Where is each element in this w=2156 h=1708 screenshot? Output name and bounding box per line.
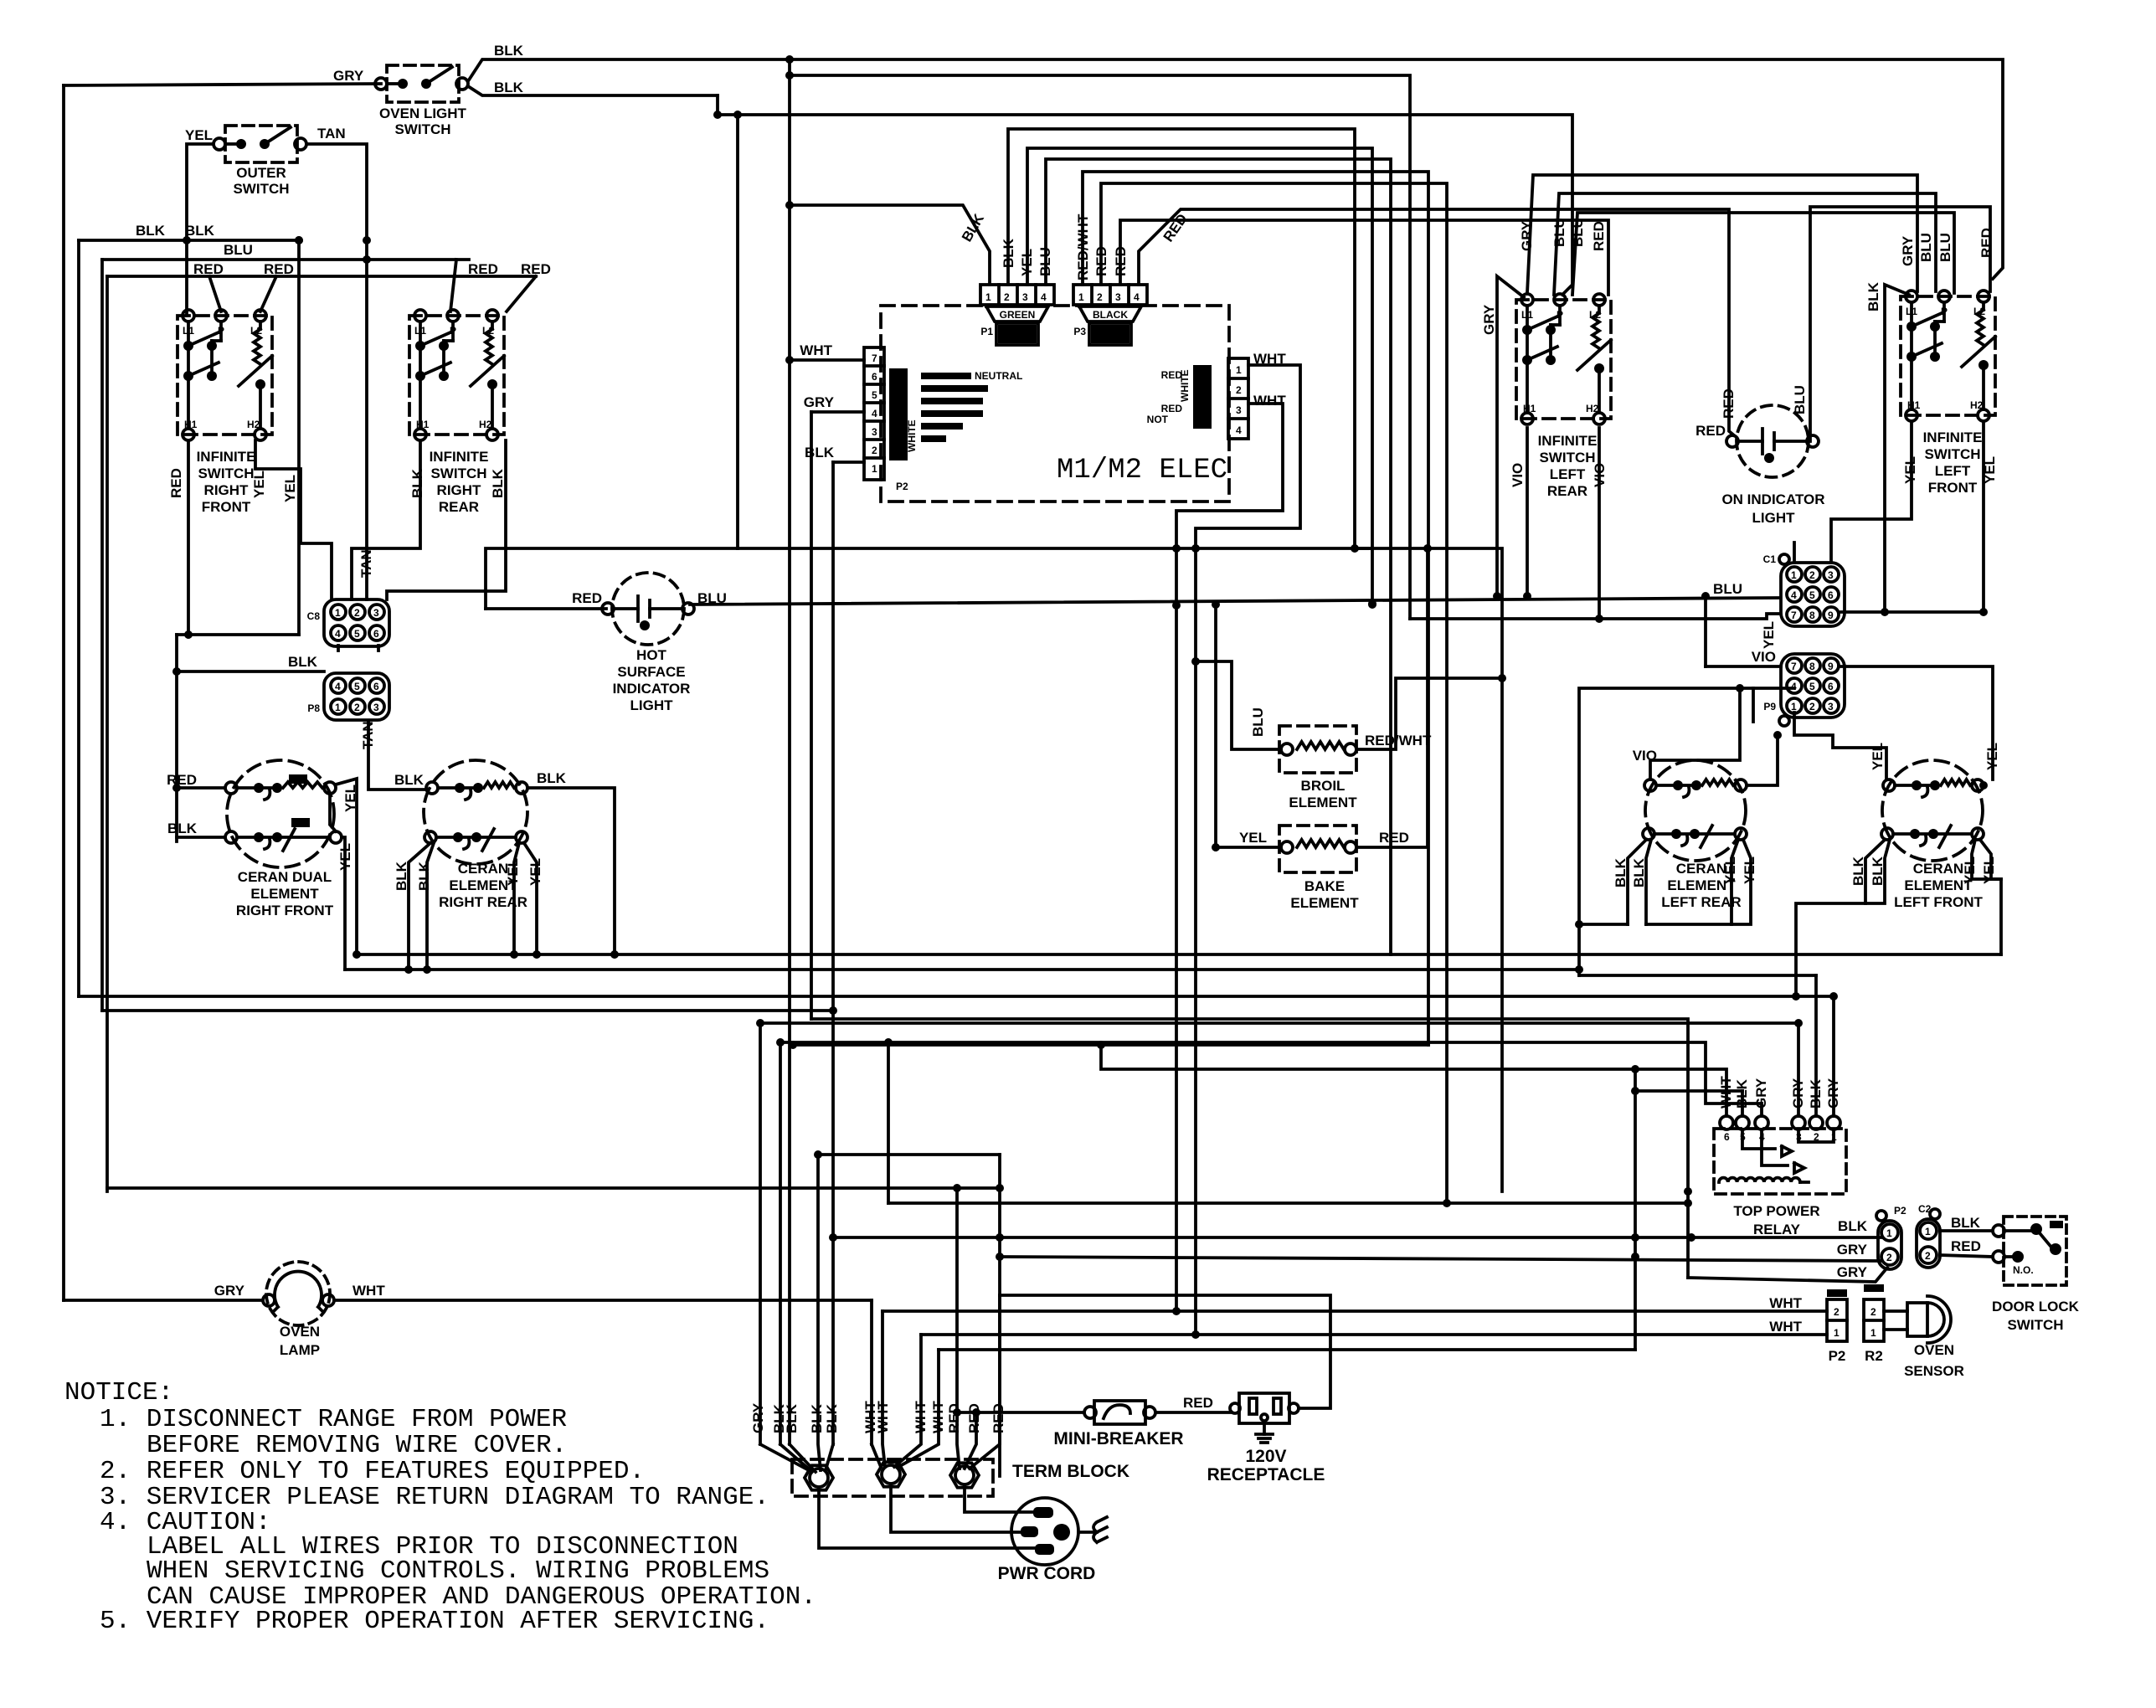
wire lamp line <box>64 1299 263 1302</box>
svg-text:5: 5 <box>1809 681 1815 692</box>
wire bus y655 <box>738 547 1369 550</box>
wire bus H5 y1207 <box>102 1009 833 1012</box>
ceran lr top row <box>1644 779 1656 791</box>
svg-text:ELEMENT: ELEMENT <box>449 877 517 893</box>
connector C8 <box>324 599 389 646</box>
svg-text:WHT: WHT <box>1253 393 1286 409</box>
svg-text:RED: RED <box>1951 1238 1981 1254</box>
ceran lf top row <box>1883 779 1895 791</box>
wire GRY left rear riser <box>1497 276 1524 596</box>
wire riser A3 YEL <box>1027 148 1372 604</box>
wire H1 right front down <box>187 440 190 635</box>
connector P9 nine pin <box>1781 654 1845 718</box>
svg-text:RED: RED <box>1721 388 1737 419</box>
svg-text:RED: RED <box>468 261 498 277</box>
ceran element right rear circle <box>424 760 527 864</box>
wire GRY board pin4 <box>811 410 864 414</box>
svg-text:4: 4 <box>872 408 877 419</box>
svg-text:RED: RED <box>1591 221 1607 251</box>
wire fan blk2 <box>790 1444 816 1472</box>
svg-text:BLK: BLK <box>1870 856 1886 886</box>
svg-text:REAR: REAR <box>1547 483 1587 499</box>
svg-text:1: 1 <box>1236 364 1242 376</box>
infinite switch left front <box>1901 296 1995 415</box>
wire p2 blk <box>833 1236 1881 1239</box>
connector P4 board blob <box>1193 365 1212 429</box>
wire BLK bus left <box>79 239 299 242</box>
wire second top bus <box>718 115 1572 295</box>
svg-text:YEL: YEL <box>1981 857 1997 884</box>
wire C8 to P8 stubs <box>337 646 340 651</box>
svg-text:MINI-BREAKER: MINI-BREAKER <box>1053 1429 1183 1448</box>
svg-text:BLK: BLK <box>1850 856 1866 886</box>
svg-text:RED: RED <box>1161 369 1183 381</box>
svg-text:WHEN SERVICING CONTROLS. WIRIN: WHEN SERVICING CONTROLS. WIRING PROBLEMS <box>147 1556 769 1586</box>
svg-text:7: 7 <box>872 352 877 364</box>
wire hsil left <box>486 607 606 610</box>
svg-text:YEL: YEL <box>1239 830 1267 846</box>
svg-text:YEL: YEL <box>282 475 298 502</box>
svg-text:ELEMENT: ELEMENT <box>1290 895 1359 911</box>
wire relay feeds top <box>1635 1089 1742 1093</box>
svg-text:OUTER: OUTER <box>236 165 286 181</box>
wire nest RED lf <box>1810 207 1990 441</box>
svg-text:WHT: WHT <box>913 1401 929 1433</box>
relay coil <box>1719 1178 1800 1182</box>
svg-text:BLK: BLK <box>394 772 425 788</box>
wire BLK drop lf <box>1885 285 1909 612</box>
svg-text:RIGHT FRONT: RIGHT FRONT <box>236 903 334 918</box>
wire bake right <box>1356 548 1428 847</box>
wire riser A1 BLK <box>790 205 990 285</box>
svg-text:WHT: WHT <box>930 1401 946 1433</box>
connector P8 <box>324 673 389 720</box>
svg-text:BLK: BLK <box>537 770 567 786</box>
svg-text:LIGHT: LIGHT <box>1752 510 1796 526</box>
svg-text:WHITE: WHITE <box>906 419 918 452</box>
wire vert 904 <box>759 1023 762 1444</box>
on indicator light <box>1737 405 1809 477</box>
svg-text:BLK: BLK <box>1734 1078 1750 1109</box>
svg-text:RED: RED <box>966 1403 982 1433</box>
wire ceran dual bottom right <box>342 837 345 970</box>
svg-text:5: 5 <box>354 628 360 640</box>
svg-text:GRY: GRY <box>1481 304 1497 335</box>
wire ceran lf bottom right <box>1972 840 2001 954</box>
wire p2 gry1 <box>1000 1257 1881 1261</box>
svg-text:4: 4 <box>1791 589 1797 601</box>
svg-text:2: 2 <box>872 445 877 456</box>
connector R2 rect <box>1864 1299 1884 1341</box>
svg-text:LEFT FRONT: LEFT FRONT <box>1894 894 1983 910</box>
svg-text:VIO: VIO <box>1752 649 1776 665</box>
svg-text:TAN: TAN <box>317 126 346 141</box>
svg-text:BLK: BLK <box>1001 238 1016 268</box>
svg-text:BLK: BLK <box>1808 1078 1824 1109</box>
svg-text:2: 2 <box>1834 1306 1840 1318</box>
svg-text:RED: RED <box>1161 403 1183 414</box>
svg-text:SWITCH: SWITCH <box>233 181 289 197</box>
wire ceran rr top right <box>527 788 615 954</box>
svg-text:1: 1 <box>985 291 991 303</box>
oven sensor <box>1907 1303 1927 1336</box>
hot surface indicator light <box>612 573 684 645</box>
svg-text:BLK: BLK <box>136 223 166 239</box>
connector P3 plug blob <box>1079 306 1141 322</box>
svg-text:6: 6 <box>1828 589 1834 601</box>
svg-text:C2: C2 <box>1918 1203 1932 1215</box>
svg-text:CERAN: CERAN <box>1676 861 1726 877</box>
svg-text:RED: RED <box>167 772 197 788</box>
wire wht p2 rect2 <box>921 1333 1827 1336</box>
svg-text:WHT: WHT <box>1253 351 1286 367</box>
outer switch <box>225 126 297 162</box>
svg-text:NEUTRAL: NEUTRAL <box>975 370 1022 382</box>
svg-text:P2: P2 <box>1894 1205 1906 1217</box>
wire left front H1 out <box>1831 421 1912 563</box>
wire C1 pin9 out <box>1841 610 1984 614</box>
svg-text:5: 5 <box>354 681 360 692</box>
junction dots left buses <box>183 236 191 244</box>
svg-text:9: 9 <box>1828 661 1834 672</box>
svg-text:RECEPTACLE: RECEPTACLE <box>1207 1465 1325 1484</box>
wire receptacle ground <box>1263 1423 1266 1434</box>
svg-text:BLK: BLK <box>494 43 524 59</box>
svg-text:RED/WHT: RED/WHT <box>1365 733 1432 749</box>
ceran dual bottom row <box>225 831 237 843</box>
svg-text:H1: H1 <box>1523 403 1536 414</box>
svg-text:BLU: BLU <box>1250 707 1266 737</box>
wire WHT board right pin3 <box>1176 404 1283 548</box>
svg-text:TAN: TAN <box>358 549 374 578</box>
svg-text:1: 1 <box>1791 701 1797 713</box>
svg-text:YEL: YEL <box>1722 857 1738 884</box>
receptacle 120V <box>1239 1393 1289 1423</box>
svg-text:3: 3 <box>872 426 877 438</box>
ceran lr frame <box>1579 688 1794 975</box>
wire TAN outer switch <box>306 144 367 599</box>
svg-text:WHT: WHT <box>800 342 832 358</box>
svg-text:RED: RED <box>1379 830 1409 846</box>
svg-text:H2: H2 <box>1586 403 1599 414</box>
svg-text:6: 6 <box>1828 681 1834 692</box>
wire bus H6 y1222 <box>760 1021 1798 1025</box>
wire riser A2 BLK <box>1008 129 1355 548</box>
svg-text:FRONT: FRONT <box>1928 480 1978 496</box>
svg-text:BLK: BLK <box>824 1403 840 1433</box>
wire riser B2 RED <box>1101 183 1447 1203</box>
svg-text:ELEMENT: ELEMENT <box>1289 795 1357 810</box>
svg-text:RED: RED <box>1113 246 1129 276</box>
wire RED drop to L2 right front <box>260 276 276 311</box>
wire breaker to receptacle <box>1155 1411 1231 1414</box>
svg-text:3: 3 <box>1828 701 1834 713</box>
svg-text:C1: C1 <box>1763 553 1777 565</box>
infinite switch right rear <box>409 316 504 435</box>
svg-text:6: 6 <box>872 371 877 383</box>
svg-text:RED: RED <box>1093 246 1109 276</box>
svg-text:BLK: BLK <box>490 468 506 498</box>
svg-text:YEL: YEL <box>185 127 213 143</box>
wire GRY to oven light switch <box>64 84 381 85</box>
connector C2 oval <box>1917 1219 1940 1268</box>
svg-text:RED: RED <box>264 261 294 277</box>
wire riser B4 RED diag <box>1139 209 1734 435</box>
svg-text:4: 4 <box>1041 291 1047 303</box>
wire ceran lr bottom right <box>1646 840 1738 924</box>
svg-text:SWITCH: SWITCH <box>198 466 254 481</box>
svg-text:7: 7 <box>1791 661 1797 672</box>
wire fan wht1 <box>882 1311 885 1467</box>
wire C1 top wires <box>1793 543 1796 563</box>
svg-text:1: 1 <box>1870 1327 1876 1339</box>
svg-text:BLK: BLK <box>167 821 198 836</box>
svg-text:1: 1 <box>1886 1227 1892 1239</box>
svg-text:5: 5 <box>872 389 877 401</box>
svg-text:REAR: REAR <box>439 499 479 515</box>
svg-text:SWITCH: SWITCH <box>1539 450 1595 466</box>
ceran element left front circle <box>1882 760 1983 861</box>
svg-text:RED: RED <box>193 261 224 277</box>
svg-text:SENSOR: SENSOR <box>1904 1363 1964 1379</box>
wire vert 1953 <box>1634 1069 1637 1350</box>
svg-text:CERAN DUAL: CERAN DUAL <box>238 869 332 885</box>
wire fan wht2 <box>894 1335 921 1467</box>
top power relay box <box>1714 1129 1846 1194</box>
svg-text:1: 1 <box>1791 569 1797 581</box>
svg-text:BLK: BLK <box>1613 857 1629 887</box>
wire bus y1379 <box>818 1153 1000 1156</box>
wire ceran dual top right <box>336 779 357 954</box>
ceran dual element right front circle <box>227 760 334 867</box>
svg-text:1: 1 <box>1834 1327 1840 1339</box>
wire center bus x969 lower <box>811 1019 1688 1278</box>
svg-text:WHT: WHT <box>1769 1319 1802 1335</box>
svg-text:RIGHT: RIGHT <box>437 482 482 498</box>
wire fan blk4 <box>826 1444 833 1470</box>
svg-text:BLK: BLK <box>805 445 835 460</box>
svg-text:P3: P3 <box>1073 326 1086 337</box>
svg-text:GRY: GRY <box>1825 1078 1841 1109</box>
connector P2 rect <box>1827 1299 1847 1341</box>
wire fan blk1 <box>780 1444 812 1472</box>
bake element <box>1279 826 1356 872</box>
wire WHT board pin7 <box>790 358 864 362</box>
svg-text:SWITCH: SWITCH <box>430 466 486 481</box>
wire vert 1194 <box>998 1155 1001 1476</box>
svg-text:RED: RED <box>991 1403 1006 1433</box>
door lock terminals <box>1993 1225 2004 1237</box>
svg-text:3: 3 <box>1236 404 1242 416</box>
svg-text:INFINITE: INFINITE <box>1538 433 1598 449</box>
svg-text:3: 3 <box>1115 291 1121 303</box>
svg-text:BLK: BLK <box>784 1403 800 1433</box>
ceran rr top row <box>426 782 438 794</box>
svg-text:BLK: BLK <box>409 468 425 498</box>
svg-text:2: 2 <box>354 607 360 619</box>
svg-text:BEFORE REMOVING WIRE COVER.: BEFORE REMOVING WIRE COVER. <box>147 1431 567 1460</box>
svg-text:NOT: NOT <box>1147 414 1169 425</box>
term block studs <box>805 1465 833 1489</box>
svg-text:4: 4 <box>1791 681 1797 692</box>
svg-text:GRY: GRY <box>1837 1264 1868 1280</box>
svg-text:BLU: BLU <box>1792 385 1808 414</box>
infinite switch left rear <box>1516 300 1611 419</box>
wire top BLK bus to right edge <box>790 59 2003 279</box>
svg-text:2: 2 <box>1809 701 1815 713</box>
svg-text:6: 6 <box>373 628 379 640</box>
pwr cord plug <box>1011 1498 1078 1565</box>
connector P2 board <box>864 347 884 480</box>
svg-text:GRY: GRY <box>333 68 364 84</box>
wire fan wht3 <box>898 1350 939 1467</box>
wire bus y1277 relay <box>1101 1045 1726 1116</box>
svg-text:5: 5 <box>1809 589 1815 601</box>
wire H1 right rear down <box>352 440 420 599</box>
svg-text:YEL: YEL <box>1962 857 1978 884</box>
svg-text:DOOR LOCK: DOOR LOCK <box>1992 1299 2080 1314</box>
svg-text:BAKE: BAKE <box>1304 878 1345 894</box>
svg-text:2: 2 <box>354 702 360 713</box>
svg-text:2: 2 <box>1809 569 1815 581</box>
connector P2 oval <box>1878 1221 1901 1269</box>
svg-text:BLK: BLK <box>1631 857 1647 887</box>
svg-text:LAMP: LAMP <box>280 1342 320 1358</box>
svg-text:BLK: BLK <box>1865 281 1881 311</box>
wire ceran lf bottom left <box>1796 840 1885 996</box>
wire H2 right rear down <box>387 440 506 599</box>
svg-text:YEL: YEL <box>1870 743 1886 770</box>
svg-text:ELEMENT: ELEMENT <box>250 886 319 902</box>
svg-text:BLK: BLK <box>809 1403 825 1433</box>
wire riser B1 REDWHT <box>1083 172 1428 1045</box>
svg-text:M1/M2 ELEC: M1/M2 ELEC <box>1057 455 1227 486</box>
svg-text:7: 7 <box>1791 610 1797 621</box>
svg-text:8: 8 <box>1809 610 1815 621</box>
svg-text:ON INDICATOR: ON INDICATOR <box>1721 491 1824 507</box>
wire vertical center bus x943 <box>788 59 791 1444</box>
svg-text:BLU: BLU <box>1918 233 1934 262</box>
svg-text:YEL: YEL <box>527 858 543 886</box>
svg-text:GRY: GRY <box>1519 220 1535 251</box>
wire right trio x1428 <box>1194 548 1197 1335</box>
svg-text:H1: H1 <box>1907 399 1921 411</box>
svg-text:R2: R2 <box>1865 1348 1883 1364</box>
wire y1165 to relay <box>1579 974 1816 977</box>
svg-text:GRY: GRY <box>750 1402 766 1433</box>
wire RED drop to P right front <box>209 276 221 311</box>
svg-text:2. REFER ONLY TO FEATURES EQUI: 2. REFER ONLY TO FEATURES EQUIPPED. <box>100 1457 645 1486</box>
svg-text:HOT: HOT <box>636 647 667 663</box>
svg-text:CERAN: CERAN <box>1913 861 1963 877</box>
svg-text:RED: RED <box>1978 228 1994 258</box>
svg-text:4: 4 <box>335 681 341 692</box>
svg-text:YEL: YEL <box>1019 249 1035 276</box>
wire riser B3 RED <box>1120 220 1608 295</box>
wire fan blk3 <box>818 1155 821 1470</box>
svg-text:3: 3 <box>373 607 379 619</box>
wire H2 right front down <box>255 440 332 599</box>
svg-text:INFINITE: INFINITE <box>1923 430 1983 445</box>
svg-text:BLACK: BLACK <box>1093 309 1128 321</box>
wire nest BLU1 <box>1554 193 1936 295</box>
svg-text:2: 2 <box>1004 291 1010 303</box>
wire bus H1 y1140 <box>357 953 2001 956</box>
wire top long y90 <box>790 75 1410 619</box>
relay terminals <box>1720 1116 1733 1129</box>
svg-text:GRY: GRY <box>804 394 835 410</box>
svg-text:OVEN: OVEN <box>1914 1342 1954 1358</box>
svg-text:BLU: BLU <box>1713 581 1742 597</box>
svg-text:BLK: BLK <box>1951 1215 1981 1231</box>
connector P3 black <box>1073 285 1147 305</box>
svg-text:GRY: GRY <box>1790 1078 1806 1109</box>
svg-text:LIGHT: LIGHT <box>630 697 674 713</box>
wire wht p2 rect1 <box>882 1309 1827 1313</box>
svg-text:SURFACE: SURFACE <box>617 664 685 680</box>
relay internals <box>1742 1129 1775 1149</box>
connector C1 nine pin <box>1781 563 1845 626</box>
svg-text:BLK: BLK <box>1838 1218 1868 1234</box>
svg-text:P8: P8 <box>307 702 320 714</box>
svg-text:6: 6 <box>1724 1131 1730 1143</box>
svg-text:SWITCH: SWITCH <box>394 121 450 137</box>
svg-text:BLU: BLU <box>224 242 253 258</box>
svg-text:P2: P2 <box>1829 1348 1846 1364</box>
wire stud3 to cord <box>965 1487 1033 1512</box>
svg-text:BROIL: BROIL <box>1301 778 1346 794</box>
control board M1/M2 ELEC box <box>881 306 1229 502</box>
svg-text:INFINITE: INFINITE <box>197 449 256 465</box>
wire BLU bus left <box>102 258 469 261</box>
svg-text:CERAN: CERAN <box>458 861 508 877</box>
wire P9 bottom outs <box>1794 713 1886 779</box>
svg-text:3: 3 <box>1022 291 1028 303</box>
svg-text:P9: P9 <box>1763 701 1776 713</box>
svg-text:YEL: YEL <box>251 471 267 498</box>
wire receptacle right <box>1000 1295 1330 1408</box>
svg-text:TERM BLOCK: TERM BLOCK <box>1012 1462 1129 1481</box>
svg-text:BLK: BLK <box>288 654 318 670</box>
ceran dual top row <box>225 782 237 794</box>
connector P4 board <box>1228 358 1248 439</box>
svg-text:GRY: GRY <box>214 1283 245 1299</box>
wire fan gry <box>760 1444 809 1470</box>
wire BLK jog <box>716 95 719 115</box>
wire stud2 to cord <box>891 1486 1021 1532</box>
wire right trio x1452 <box>1214 604 1217 847</box>
svg-text:SWITCH: SWITCH <box>2007 1317 2063 1333</box>
svg-text:YEL: YEL <box>1984 743 2000 770</box>
term block box <box>792 1459 993 1496</box>
svg-text:BLU: BLU <box>1551 218 1567 247</box>
wire BLK upper from oven light switch <box>468 59 790 81</box>
wire WHT board right pin1 <box>1196 365 1300 548</box>
svg-text:RED: RED <box>168 468 184 498</box>
wire ceran lr frame right <box>1752 688 1755 722</box>
svg-text:P1: P1 <box>980 326 993 337</box>
oven lamp <box>266 1262 330 1325</box>
wire RED bus left <box>107 275 536 278</box>
connector P1 plug blob <box>986 306 1048 322</box>
svg-text:BLK: BLK <box>394 861 409 891</box>
svg-text:3: 3 <box>1828 569 1834 581</box>
svg-text:WHT: WHT <box>352 1283 385 1299</box>
svg-text:4: 4 <box>335 628 341 640</box>
svg-text:GRY: GRY <box>1900 235 1916 266</box>
wire left front H2 out <box>1982 421 1985 612</box>
relay terminal risers <box>1741 1091 1744 1116</box>
